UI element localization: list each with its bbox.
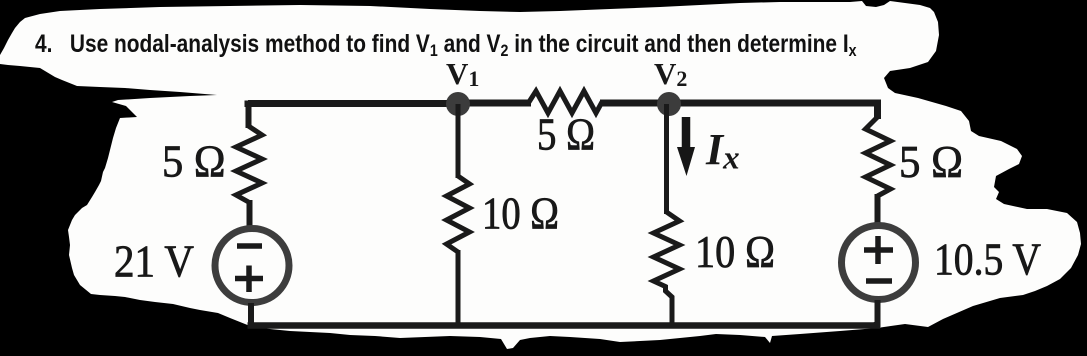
svg-text:10 Ω: 10 Ω	[482, 189, 559, 239]
10.5V source plus sign	[864, 236, 893, 264]
node V2	[657, 92, 681, 116]
wire: right branch between resistor and source	[875, 194, 881, 226]
svg-text:21 V: 21 V	[114, 237, 194, 287]
svg-text:5 Ω: 5 Ω	[537, 110, 595, 160]
wire: top bus left segment (corner to node V1)	[248, 101, 460, 104]
title text	[35, 30, 857, 61]
wire: V2 branch from node down to resistor R4	[664, 104, 669, 214]
21V source plus sign	[235, 266, 263, 293]
resistor R4 10ohm vertical under V2	[654, 212, 680, 287]
svg-text:10.5 V: 10.5 V	[934, 235, 1041, 285]
wire: middle branch below resistor to bottom bus	[456, 250, 461, 327]
svg-text:5 Ω: 5 Ω	[162, 137, 226, 187]
wire: left branch top (corner down to resistor R1)	[246, 103, 252, 128]
svg-text:5 Ω: 5 Ω	[899, 137, 963, 187]
wire: left branch between resistor and source	[247, 200, 253, 230]
svg-text:10 Ω: 10 Ω	[695, 227, 775, 277]
wire: bottom bus	[248, 322, 878, 326]
node V1	[446, 92, 470, 116]
current arrow Ix	[682, 117, 691, 150]
wire: right branch below source	[875, 300, 881, 327]
voltage source 10.5V circle	[842, 226, 916, 300]
resistor R5 5ohm vertical right	[866, 117, 891, 196]
wire: top bus from V2 to right corner	[667, 103, 878, 119]
21V source minus sign	[237, 243, 262, 249]
10.5V source minus sign	[866, 278, 892, 284]
wire: V2 branch below resistor with jog to bottom bus	[666, 285, 673, 327]
wire: middle branch from V1 down to resistor R3	[456, 104, 461, 178]
wire: top bus from resistor to node V2	[600, 100, 669, 107]
resistor R2 5ohm horizontal zigzag	[529, 91, 602, 113]
voltage source 21V circle	[215, 229, 289, 303]
resistor R3 10ohm vertical middle	[447, 176, 470, 252]
wire: top bus from V1 to horizontal resistor	[456, 100, 531, 107]
wire: left branch below source	[248, 303, 254, 327]
resistor R1 5ohm vertical left	[236, 126, 262, 202]
